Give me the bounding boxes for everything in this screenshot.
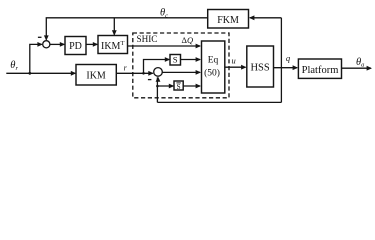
arrow output bbox=[367, 66, 372, 71]
svg-text:Eq: Eq bbox=[208, 55, 219, 65]
wire Eq to HSS (u) bbox=[225, 66, 246, 68]
summing junction 2 bbox=[154, 68, 163, 77]
arrow into FKM right bbox=[249, 15, 254, 20]
svg-text:θc: θc bbox=[160, 8, 168, 20]
arrow into IKMT bbox=[93, 42, 98, 47]
wire branch up to S box bbox=[144, 60, 170, 74]
minus sign at summing2 bbox=[148, 79, 152, 81]
svg-text:IKM: IKM bbox=[86, 71, 106, 82]
svg-text:(50): (50) bbox=[204, 68, 220, 79]
block HSS bbox=[247, 46, 274, 87]
wire top feedback line (theta_c) bbox=[46, 18, 207, 40]
wire bottom feedback rise into summing2 bbox=[156, 77, 158, 102]
junction dot Sbar branch bbox=[156, 85, 159, 88]
minus sign at summing1 bbox=[38, 36, 42, 38]
block IKM bbox=[76, 65, 116, 86]
arrow into S box bbox=[165, 57, 170, 62]
wire summing2 to Eq bbox=[162, 71, 200, 73]
dashed box SHIC bbox=[133, 33, 229, 98]
wire S box to Eq bbox=[181, 59, 201, 61]
svg-text:FKM: FKM bbox=[217, 15, 239, 26]
block Eq(50) bbox=[202, 41, 225, 93]
svg-text:r: r bbox=[124, 64, 128, 73]
block IKMT bbox=[98, 36, 128, 54]
wire bottom feedback horizontal bbox=[157, 101, 281, 103]
svg-text:ΔQ: ΔQ bbox=[182, 35, 194, 45]
wire summing1 to PD bbox=[50, 43, 64, 45]
wire HSS to Platform (q) bbox=[274, 67, 298, 69]
wire Sbar box to Eq bbox=[183, 85, 200, 87]
svg-text:θa: θa bbox=[356, 57, 364, 69]
arrow into summing2 bottom bbox=[156, 76, 161, 81]
junction dot theta_r bbox=[28, 72, 31, 75]
svg-text:Platform: Platform bbox=[302, 65, 339, 76]
svg-text:S: S bbox=[173, 55, 178, 65]
arrow into Eq DeltaQ row bbox=[196, 44, 201, 49]
arrow into HSS bbox=[241, 65, 246, 70]
wire branch down into IKMT top bbox=[113, 18, 115, 35]
svg-text:SHIC: SHIC bbox=[137, 34, 158, 44]
svg-text:θr: θr bbox=[10, 60, 18, 72]
arrow into Platform bbox=[293, 65, 298, 70]
junction dot r branch bbox=[142, 72, 145, 75]
arrow into Eq Sbar row bbox=[196, 84, 201, 89]
wire IKM to summing junction 2 bbox=[116, 72, 152, 74]
block S bbox=[170, 55, 181, 66]
arrow into IKM bbox=[71, 71, 76, 76]
wire IKMT to Eq (DeltaQ row) bbox=[128, 45, 201, 47]
svg-text:HSS: HSS bbox=[250, 63, 269, 74]
block Sbar bbox=[174, 81, 183, 90]
arrow into Eq middle row bbox=[196, 70, 201, 75]
wire theta_r input bbox=[6, 72, 75, 74]
svg-text:PD: PD bbox=[69, 41, 82, 52]
block Platform bbox=[298, 59, 341, 78]
wire feedback vertical bbox=[280, 18, 282, 103]
block PD bbox=[65, 37, 86, 55]
arrow into summing1 left bbox=[37, 42, 42, 47]
wire PD to IKMT bbox=[86, 43, 97, 45]
overbar of Sbar bbox=[176, 82, 180, 84]
summing junction 1 bbox=[43, 41, 50, 48]
arrow into summing1 top bbox=[44, 35, 49, 40]
svg-text:q: q bbox=[286, 53, 291, 63]
wire Platform output bbox=[342, 67, 372, 69]
svg-text:u: u bbox=[232, 56, 236, 66]
wire branch up to summing junction 1 bbox=[30, 44, 42, 73]
wire q feedback to FKM bbox=[250, 17, 282, 19]
wire branch to Sbar box bbox=[157, 85, 173, 87]
arrow into Eq S row bbox=[196, 57, 201, 62]
arrow into IKMT top bbox=[112, 30, 117, 35]
block FKM bbox=[208, 10, 249, 29]
arrow into Sbar box bbox=[169, 84, 174, 89]
arrow into summing2 left bbox=[148, 71, 153, 76]
arrow into PD bbox=[60, 42, 65, 47]
